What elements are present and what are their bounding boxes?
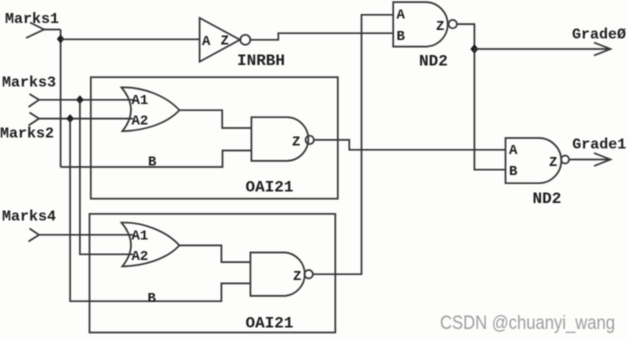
- svg-text:OAI21: OAI21: [246, 179, 294, 197]
- nand-gate ND2#1: [393, 2, 457, 47]
- svg-text:Z: Z: [549, 155, 557, 171]
- nand-gate ND2#2: [506, 138, 570, 183]
- svg-text:A2: A2: [132, 114, 149, 130]
- svg-text:A1: A1: [132, 93, 149, 109]
- wire OAI21#2 output up to ND2#1 A: [313, 15, 393, 274]
- wire Marks2 to OR#1 A2: [39, 118, 133, 120]
- junction Marks2 node: [66, 114, 74, 123]
- svg-text:ND2: ND2: [419, 53, 448, 71]
- svg-text:B: B: [148, 291, 157, 307]
- input port Marks1: [5, 11, 59, 38]
- svg-text:B: B: [397, 29, 406, 45]
- wire Marks3 vertical to OAI21#2 A2: [80, 100, 133, 255]
- wire Marks1 to OAI21#1 B input: [61, 151, 252, 168]
- svg-text:B: B: [148, 155, 157, 171]
- wire OAI21#1 output to ND2#2 A: [314, 140, 506, 150]
- svg-text:ND2: ND2: [533, 190, 562, 208]
- wire Marks2 vertical to OAI21#2 B: [70, 119, 250, 302]
- wire Marks1 horizontal: [44, 29, 61, 31]
- svg-text:OAI21: OAI21: [246, 315, 294, 333]
- svg-text:Z: Z: [292, 135, 300, 151]
- wire Marks1 to inverter A: [61, 38, 200, 40]
- svg-text:A1: A1: [132, 228, 149, 244]
- junction Marks3 node: [76, 95, 84, 104]
- output arrow Grade1: [569, 153, 610, 166]
- junction Marks1 node: [57, 35, 65, 44]
- svg-text:A: A: [202, 34, 211, 50]
- svg-text:Marks1: Marks1: [5, 11, 59, 28]
- nand-gate NAND#1 of OAI21#1: [251, 117, 314, 161]
- junction Grade0 node: [470, 44, 478, 54]
- or-gate OR#2 of OAI21#2: [121, 223, 179, 267]
- input port Marks3: [2, 75, 56, 108]
- svg-text:GradeØ: GradeØ: [572, 27, 626, 44]
- wire Grade0 to ND2#2 B: [474, 49, 505, 170]
- wire Marks4 to OR#2 A1: [39, 234, 133, 236]
- wire INRBH output to ND2#1 B: [250, 33, 393, 40]
- svg-text:A2: A2: [132, 249, 149, 265]
- svg-text:Marks2: Marks2: [0, 126, 54, 143]
- svg-text:Marks3: Marks3: [2, 75, 56, 92]
- wire Marks1 vertical branch: [60, 30, 62, 168]
- or-gate OR#1 of OAI21#1: [121, 87, 179, 131]
- svg-text:Z: Z: [436, 19, 444, 35]
- svg-text:Z: Z: [293, 269, 301, 285]
- inverter U1 INRBH: [200, 18, 251, 62]
- svg-text:Z: Z: [221, 34, 229, 50]
- svg-text:Marks4: Marks4: [2, 209, 56, 226]
- wire ND2#1 output to Grade0 junction: [457, 24, 475, 49]
- svg-text:B: B: [509, 164, 518, 180]
- svg-text:INRBH: INRBH: [237, 52, 285, 70]
- wire Marks3 to OR#1 A1: [39, 99, 133, 101]
- input port Marks2: [0, 113, 54, 143]
- svg-text:A: A: [397, 8, 406, 24]
- wire OR#2 output to NAND#2 A: [179, 245, 250, 262]
- svg-text:A: A: [509, 143, 518, 159]
- wire OR#1 output to NAND#1 A: [179, 110, 251, 128]
- nand-gate NAND#2 of OAI21#2: [250, 253, 313, 296]
- block OAI21 #1 boundary box: [91, 77, 338, 199]
- block OAI21 #2 boundary box: [90, 214, 336, 333]
- output arrow Grade0: [474, 43, 610, 56]
- svg-text:CSDN @chuanyi_wang: CSDN @chuanyi_wang: [440, 312, 615, 334]
- svg-text:Grade1: Grade1: [572, 137, 626, 154]
- input port Marks4: [2, 209, 56, 242]
